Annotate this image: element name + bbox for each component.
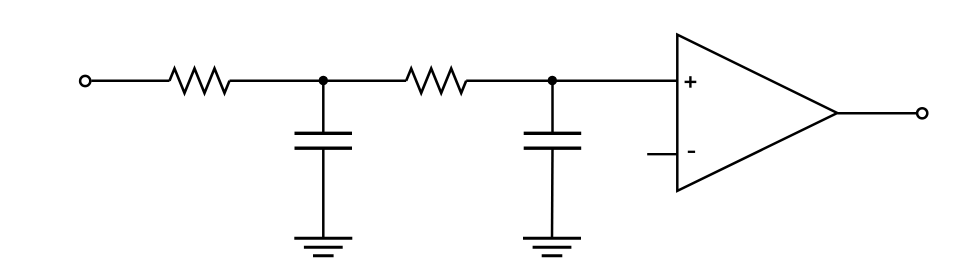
capacitor C2 [524, 133, 582, 148]
node B junction dot [548, 76, 557, 85]
output terminal [917, 108, 927, 118]
input terminal [80, 76, 90, 86]
wire input to R1 [92, 79, 170, 82]
wire op-amp output [837, 112, 917, 115]
wire R1 to R2 (through node A) [230, 79, 407, 82]
ground (below C2) [523, 238, 581, 255]
op-amp + input label [685, 76, 697, 88]
resistor R2 [406, 69, 466, 94]
wire node A down to C1 [322, 81, 325, 134]
node A junction dot [319, 76, 328, 85]
op-amp - input label [688, 151, 695, 153]
wire stub at inverting input [647, 153, 677, 155]
capacitor C1 [295, 133, 353, 148]
wire R2 to op-amp + input (through node B) [466, 79, 677, 82]
op-amp U1 [677, 35, 837, 191]
wire C1 down to ground [322, 148, 325, 238]
ground (below C1) [294, 238, 352, 255]
wire C2 down to ground [551, 148, 554, 238]
resistor R1 [170, 69, 230, 94]
wire node B down to C2 [551, 81, 554, 134]
